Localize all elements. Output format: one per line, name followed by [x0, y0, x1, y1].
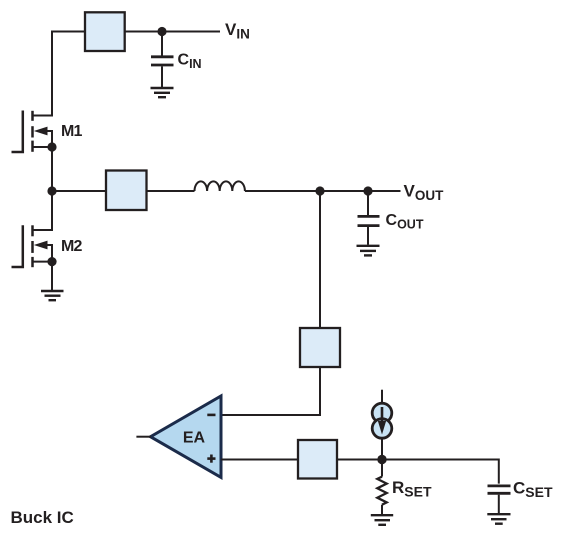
current source stub	[381, 390, 383, 405]
M1 body arrow	[34, 127, 48, 136]
wire block down and left to EA minus input	[221, 367, 320, 415]
EA minus sign	[207, 414, 215, 417]
M1 gate lead	[12, 111, 23, 153]
node VIN junction	[157, 27, 166, 36]
EA output stub	[136, 436, 151, 438]
M1 channel segment top	[31, 111, 34, 121]
current source I	[372, 403, 392, 438]
M1 body lead	[46, 131, 52, 147]
block (inductor current sense)	[106, 171, 147, 211]
wire EA plus input to block	[221, 459, 298, 461]
wire feedback node down to block	[319, 191, 321, 328]
M2 body lead	[46, 245, 52, 262]
wire current source to RSET node	[381, 438, 383, 460]
block (feedback divider)	[300, 328, 340, 367]
M2 gate lead	[12, 225, 23, 267]
wire top-left from block to corner down to M1 drain	[52, 32, 85, 116]
wire block to RSET node to CSET corner	[337, 460, 499, 484]
wire node to COUT	[367, 191, 369, 215]
M2 drain lead	[33, 229, 54, 231]
op-amp EA	[151, 396, 222, 477]
svg-text:M2: M2	[61, 238, 83, 255]
node feedback junction	[315, 186, 324, 195]
svg-text:EA: EA	[183, 430, 206, 447]
M1 drain lead	[33, 115, 54, 117]
node switch junction	[47, 186, 56, 195]
node RSET junction	[377, 455, 386, 464]
svg-text:CSET: CSET	[513, 478, 553, 500]
wire node to CIN	[161, 32, 163, 57]
M1 source junction dot	[47, 142, 56, 151]
svg-text:M1: M1	[61, 123, 83, 140]
M1 channel segment bottom	[31, 141, 34, 152]
wire switch node to block	[52, 190, 106, 192]
M1 source lead	[33, 146, 53, 148]
M2 body arrow	[34, 241, 48, 250]
transistor M2	[12, 225, 57, 267]
wire M2 source to ground	[51, 262, 53, 290]
capacitor CIN	[151, 57, 174, 65]
M2 channel segment top	[31, 225, 34, 236]
ground CSET	[487, 514, 510, 524]
capacitor CSET	[488, 486, 511, 493]
wire CSET to ground	[498, 495, 500, 514]
M1 channel segment middle	[31, 126, 34, 137]
inductor L	[195, 181, 245, 191]
block (soft start / reference)	[298, 440, 337, 479]
capacitor COUT	[358, 216, 380, 225]
ground M2	[41, 291, 64, 300]
EA plus sign	[207, 455, 215, 463]
M2 channel segment middle	[31, 241, 34, 253]
svg-text:COUT: COUT	[386, 212, 424, 231]
M2 source junction dot	[47, 257, 56, 266]
wire resistor to ground	[381, 505, 383, 515]
wire block to inductor	[147, 190, 195, 192]
ground CIN	[151, 88, 174, 97]
wire COUT to ground	[367, 227, 369, 245]
block (top sense element)	[85, 12, 125, 51]
wire block to VIN	[125, 31, 220, 33]
transistor M1	[12, 111, 57, 153]
svg-text:RSET: RSET	[392, 478, 432, 500]
svg-text:CIN: CIN	[178, 51, 202, 70]
wire inductor to VOUT	[245, 190, 401, 192]
ground COUT	[357, 246, 380, 256]
svg-text:VIN: VIN	[225, 20, 250, 42]
svg-text:Buck IC: Buck IC	[11, 508, 74, 527]
wire node to resistor	[381, 460, 383, 477]
ground RSET	[371, 515, 393, 525]
wire M1 source to switch node to M2 drain	[51, 147, 53, 230]
resistor RSET	[377, 477, 386, 505]
M2 channel segment bottom	[31, 257, 34, 267]
wire CIN to ground	[161, 66, 163, 87]
M2 source lead	[33, 261, 53, 263]
svg-text:VOUT: VOUT	[404, 181, 445, 203]
node COUT junction	[363, 186, 372, 195]
